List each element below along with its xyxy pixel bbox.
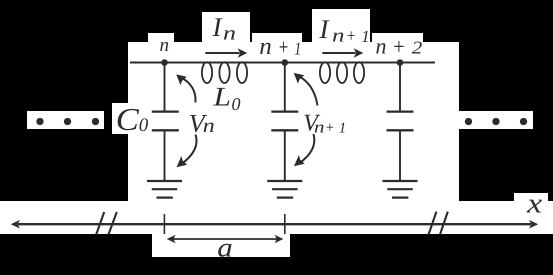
svg-text:n: n <box>160 35 170 56</box>
svg-text:1: 1 <box>294 39 301 59</box>
svg-text:n: n <box>259 34 272 60</box>
svg-text:L: L <box>212 82 231 112</box>
svg-text:x: x <box>526 188 543 219</box>
svg-text:+: + <box>278 34 289 59</box>
svg-text:0: 0 <box>232 94 241 114</box>
svg-text:n: n <box>223 23 236 45</box>
svg-text:1: 1 <box>339 120 347 136</box>
svg-text:2: 2 <box>412 38 423 58</box>
svg-text:n: n <box>332 26 345 47</box>
svg-text:+: + <box>346 26 357 46</box>
svg-text:n: n <box>314 117 325 136</box>
svg-text:0: 0 <box>139 115 149 136</box>
svg-text:C: C <box>116 101 140 137</box>
svg-text:n: n <box>203 115 215 137</box>
svg-text:a: a <box>217 232 233 262</box>
svg-text:1: 1 <box>361 27 370 46</box>
svg-text:n: n <box>376 34 387 59</box>
svg-text:+: + <box>392 34 406 59</box>
svg-text:+: + <box>325 120 335 137</box>
